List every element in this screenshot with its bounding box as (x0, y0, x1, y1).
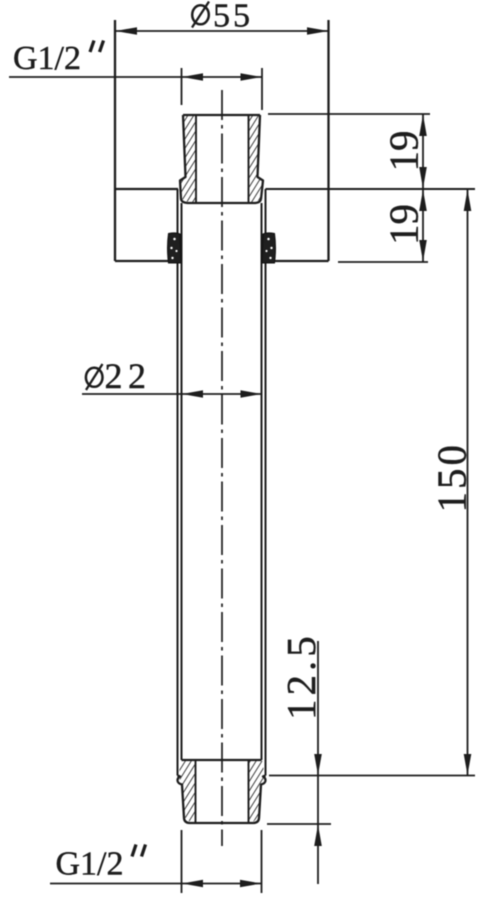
dimension Ø22 leader line (82, 390, 262, 398)
svg-text:22: 22 (105, 356, 152, 396)
flange left edge + Ø55 extension line (114, 20, 116, 261)
label Ø22 (86, 356, 152, 396)
flange top left (115, 188, 178, 190)
dimension 19 upper line (419, 114, 427, 189)
dimension bottom G1/2 (50, 830, 262, 893)
bottom collar top face (182, 759, 262, 761)
top collar thread hatch right (248, 116, 263, 202)
left seal (168, 233, 182, 263)
extension line left (181, 830, 183, 893)
top collar bore lines (195, 116, 197, 203)
dimension 12.5 line (314, 641, 322, 884)
extension line right (261, 830, 263, 893)
dimension 150 line (464, 189, 472, 776)
bottom collar thread hatch right (248, 761, 265, 822)
flange top right + extension line (266, 188, 476, 190)
svg-text:G1/2: G1/2 (56, 846, 124, 883)
dimension Ø55 (115, 27, 329, 35)
svg-text:19: 19 (381, 204, 427, 245)
flange / escutcheon (115, 20, 475, 261)
svg-text:55: 55 (213, 0, 253, 34)
dimension 19 upper: extension line at pipe top (268, 113, 430, 115)
dimension 12.5: extension line at step (269, 775, 475, 777)
label Ø55 (192, 0, 253, 34)
dimension 12.5: extension line at bottom face (267, 823, 331, 825)
top collar outline U1 (180, 115, 263, 203)
tube walls (178, 189, 266, 776)
svg-text:G1/2: G1/2 (13, 40, 81, 77)
flange bottom right (266, 260, 329, 262)
flange bottom left (115, 260, 178, 262)
dimension 19 lower line (338, 189, 428, 262)
svg-text:12.5: 12.5 (278, 632, 324, 720)
svg-text:19: 19 (381, 131, 427, 172)
flange right edge + Ø55 extension line (327, 20, 329, 261)
center line (221, 90, 223, 846)
bottom collar thread hatch left (179, 761, 196, 822)
extension line at flange bottom (338, 261, 428, 263)
extension line left tick (181, 68, 183, 105)
bottom collar outline (178, 760, 266, 823)
extension line right tick (261, 68, 263, 110)
leader + dimension line top G1/2 (9, 68, 262, 110)
right seal (262, 233, 276, 263)
bottom collar bore lines (195, 761, 197, 823)
top collar thread hatch left (181, 116, 196, 202)
svg-text:150: 150 (429, 442, 475, 513)
